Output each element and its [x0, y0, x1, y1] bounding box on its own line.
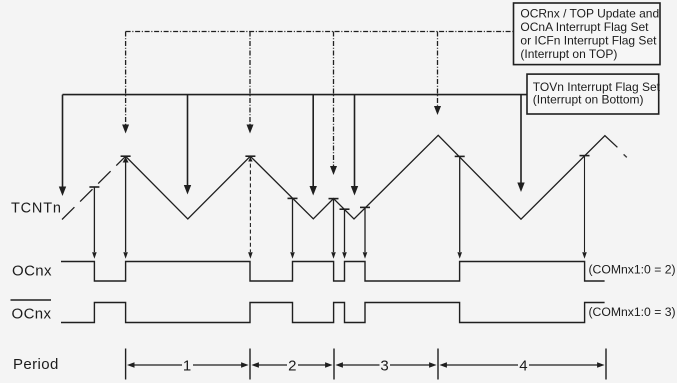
period span 3 — [335, 362, 436, 368]
TCNTn fade-out dash — [624, 154, 627, 157]
dash-dot arrow to peak 2 — [247, 32, 254, 134]
dash-dot arrow to peak 4 — [434, 32, 441, 116]
period separator 4 — [437, 349, 439, 380]
period separator 1 — [125, 349, 127, 380]
OCnx-bar waveform — [61, 303, 605, 323]
period span 2 — [251, 362, 332, 368]
svg-text:OCnx: OCnx — [12, 306, 52, 323]
svg-text:OCRnx / TOP Update and: OCRnx / TOP Update and — [520, 6, 659, 20]
TOVn net line — [63, 94, 528, 96]
compare vertical at peak 3 — [329, 199, 339, 259]
svg-text:2: 2 — [288, 358, 296, 375]
svg-text:OCnA Interrupt Flag Set: OCnA Interrupt Flag Set — [520, 20, 649, 34]
compare vertical at peak 2 (dotted) — [245, 156, 255, 259]
svg-text:Period: Period — [13, 356, 59, 373]
period separator 2 — [249, 349, 251, 380]
callout box TOVn interrupt — [527, 74, 661, 114]
compare vertical at x=292.7 — [288, 198, 298, 258]
svg-text:1: 1 — [183, 358, 191, 375]
TCNTn dashed lead-in — [62, 156, 126, 219]
svg-text:TCNTn: TCNTn — [11, 201, 62, 217]
svg-text:3: 3 — [380, 358, 388, 375]
compare vertical at x=459.7 — [455, 156, 465, 258]
svg-text:or ICFn Interrupt Flag Set: or ICFn Interrupt Flag Set — [520, 34, 657, 48]
TOVn arrow to bottom 1 — [59, 95, 66, 196]
compare vertical at x=94.4 — [89, 187, 99, 259]
period separator 5 — [605, 349, 607, 380]
compare vertical at x=584 — [580, 156, 590, 259]
period separator 3 — [333, 349, 335, 380]
period span 4 — [439, 362, 604, 368]
compare vertical at peak 1 — [121, 156, 131, 259]
dash-dot TOP-update net line — [126, 31, 514, 33]
overline for OCnx-bar — [11, 299, 52, 301]
TOVn arrow to bottom 3 — [310, 95, 317, 196]
TCNTn waveform — [126, 135, 618, 219]
svg-text:4: 4 — [519, 358, 527, 375]
callout box OCRnx/TOP update — [514, 3, 661, 65]
TOVn arrow to bottom 4 — [351, 95, 358, 196]
TOVn arrow to bottom 5 — [517, 95, 524, 192]
TOVn arrow to bottom 2 — [184, 95, 191, 195]
OCnx waveform — [61, 262, 605, 282]
svg-text:(COMnx1:0 = 2): (COMnx1:0 = 2) — [589, 263, 676, 277]
svg-text:(Interrupt on TOP): (Interrupt on TOP) — [520, 47, 617, 61]
svg-text:OCnx: OCnx — [12, 263, 52, 280]
dash-dot arrow to peak 3 — [330, 32, 337, 176]
compare vertical at x=344.5 — [340, 209, 350, 259]
period span 1 — [127, 362, 249, 368]
dash-dot arrow to peak 1 — [122, 32, 129, 134]
svg-text:(COMnx1:0 = 3): (COMnx1:0 = 3) — [589, 305, 676, 319]
compare vertical at x=365.3 — [360, 207, 370, 258]
svg-text:(Interrupt on Bottom): (Interrupt on Bottom) — [533, 93, 644, 107]
